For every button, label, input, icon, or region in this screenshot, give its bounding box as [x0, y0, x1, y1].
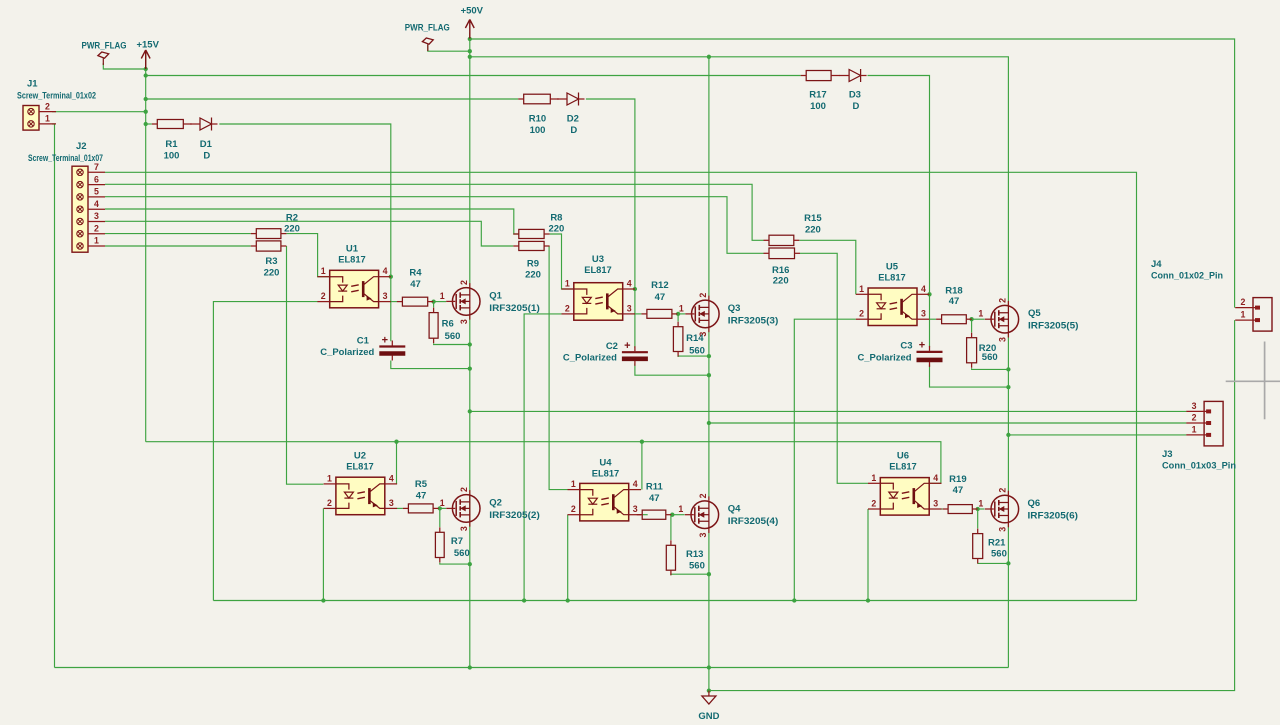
svg-text:2: 2 [698, 293, 708, 298]
wire R7 bottom to source [440, 563, 470, 564]
wire U5 pin3 to R18 [930, 318, 937, 320]
wire R20 bottom to source [972, 368, 1009, 369]
junction U2 pin2 rail [321, 598, 325, 602]
wire R21 top [977, 509, 979, 528]
transistor Q5 IRF3205(5) [978, 298, 1078, 342]
diode D1 [190, 118, 218, 162]
svg-text:2: 2 [321, 291, 326, 301]
svg-text:100: 100 [530, 125, 546, 136]
cursor crosshair [1226, 342, 1280, 420]
svg-text:Q4: Q4 [728, 504, 741, 515]
svg-text:2: 2 [565, 303, 570, 313]
svg-text:3: 3 [627, 303, 632, 313]
svg-text:J3: J3 [1162, 449, 1173, 460]
wire J2 pin2 to R2 [105, 233, 251, 235]
svg-text:IRF3205(5): IRF3205(5) [1028, 321, 1079, 332]
junction R19 R21 [976, 507, 980, 511]
svg-text:47: 47 [949, 296, 960, 307]
wire +15V to R1 [146, 123, 152, 125]
svg-text:+: + [624, 340, 630, 352]
resistor R4 [397, 267, 433, 306]
resistor R11 [637, 481, 672, 519]
wire R19 to Q6 gate [978, 508, 985, 510]
wire Q6 source to bottom rail [1007, 523, 1009, 667]
power flag PWR_FLAG 1 [98, 52, 109, 65]
wire R11 to Q4 gate [671, 514, 684, 516]
svg-text:4: 4 [627, 279, 632, 289]
svg-text:R5: R5 [415, 479, 428, 490]
svg-text:3: 3 [633, 504, 638, 514]
wire emitter rail [213, 600, 1136, 602]
svg-text:1: 1 [978, 309, 983, 319]
wire Q3 drain feed [708, 57, 710, 300]
svg-text:3: 3 [389, 498, 394, 508]
wire +15V distribution rail to U6 pin4 [146, 442, 941, 484]
svg-text:47: 47 [416, 491, 427, 502]
svg-text:+: + [919, 340, 925, 352]
svg-text:+: + [382, 334, 388, 346]
junction C2 source [707, 373, 711, 377]
svg-text:4: 4 [383, 266, 388, 276]
svg-text:U2: U2 [354, 451, 366, 462]
power +15V [136, 39, 159, 69]
wire C2 bottom to source [635, 364, 709, 376]
svg-text:EL817: EL817 [338, 254, 366, 265]
svg-text:6: 6 [94, 174, 99, 184]
svg-text:R15: R15 [804, 213, 822, 224]
junction +15V R1 [144, 122, 148, 126]
svg-text:R2: R2 [286, 213, 298, 224]
wire R14 bottom to source [678, 355, 709, 358]
wire R6 top [433, 302, 435, 308]
svg-text:EL817: EL817 [592, 468, 620, 479]
junction R14 source [707, 354, 711, 358]
junction +15V R10 line [144, 97, 148, 101]
wire GND line to J4 pin1 [709, 320, 1235, 690]
junction U3 pin4 [633, 287, 637, 291]
wire U4 pin4 to +15V rail [641, 442, 643, 490]
wire +50V stem [469, 33, 471, 288]
svg-text:U4: U4 [599, 458, 612, 469]
svg-text:220: 220 [264, 268, 280, 279]
optocoupler U5 EL817 [856, 262, 930, 326]
junction U1 pin4 [389, 275, 393, 279]
svg-text:3: 3 [459, 319, 469, 324]
svg-text:560: 560 [689, 345, 705, 356]
svg-text:D1: D1 [200, 139, 213, 150]
wire bottom rail [55, 667, 1009, 669]
optocoupler U1 EL817 [317, 244, 391, 308]
junction Q3 drain feed [707, 55, 711, 59]
svg-text:220: 220 [805, 224, 821, 235]
wire J3 pin3 line [470, 410, 1187, 412]
resistor R8 [513, 213, 564, 239]
junction R13 source [707, 572, 711, 576]
transistor Q3 IRF3205(3) [679, 293, 778, 337]
resistor R5 [403, 479, 439, 513]
wire R2 to U1 pin1 [286, 234, 329, 277]
svg-text:1: 1 [571, 479, 576, 489]
wire J2 pin5 to R16 [105, 197, 764, 254]
ground GND [698, 691, 719, 722]
svg-text:3: 3 [698, 532, 708, 537]
wire U4 pin3 to R11 [642, 514, 648, 516]
resistor R19 [943, 474, 978, 514]
svg-text:2: 2 [94, 223, 99, 233]
resistor R21 [973, 529, 1007, 564]
svg-text:2: 2 [459, 487, 469, 492]
svg-text:1: 1 [94, 236, 99, 246]
wire U4 pin2 down [567, 515, 569, 601]
wire R16 to U6 pin1 [800, 253, 868, 483]
junction U2 pin4 rail [394, 440, 398, 444]
svg-text:560: 560 [689, 561, 705, 572]
svg-text:2: 2 [871, 499, 876, 509]
svg-text:3: 3 [933, 499, 938, 509]
capacitor C3 [858, 340, 943, 367]
svg-text:2: 2 [698, 493, 708, 498]
wire Q4 source chain [708, 528, 710, 691]
svg-text:3: 3 [997, 337, 1007, 342]
junction U5 pin2 rail [792, 598, 796, 602]
svg-text:1: 1 [679, 303, 684, 313]
svg-text:220: 220 [773, 275, 789, 286]
svg-text:47: 47 [953, 485, 964, 496]
svg-text:C_Polarized: C_Polarized [320, 347, 374, 358]
junction U5 pin4 [927, 292, 931, 296]
resistor R1 [152, 120, 192, 162]
svg-text:IRF3205(2): IRF3205(2) [489, 510, 540, 521]
junction R7 source [468, 562, 472, 566]
wire U5 pin2 to rail [794, 319, 856, 600]
wire U6 pin3 to R19 [941, 508, 943, 510]
wire Q3 source chain [708, 328, 710, 500]
junction U4 pin4 rail [640, 440, 644, 444]
svg-text:R1: R1 [165, 139, 178, 150]
svg-text:R17: R17 [809, 90, 826, 101]
svg-text:EL817: EL817 [889, 461, 917, 472]
svg-text:2: 2 [997, 298, 1007, 303]
svg-text:Q3: Q3 [728, 303, 741, 314]
wire R15 to U5 pin1 [799, 240, 856, 294]
svg-text:220: 220 [548, 224, 564, 235]
junction GND tap [707, 688, 711, 692]
svg-text:220: 220 [525, 269, 541, 280]
junction U4 pin2 rail [566, 598, 570, 602]
svg-text:R4: R4 [409, 267, 422, 278]
wire J3 pin1 line [1008, 434, 1186, 436]
wire U2 pin4 to +15V rail [396, 442, 398, 484]
svg-text:2: 2 [1192, 413, 1197, 423]
junction +50V branch [468, 55, 472, 59]
wire R3 to U2 pin1 [287, 246, 324, 484]
svg-text:560: 560 [454, 548, 470, 559]
connector J4 Conn_01x02_Pin [1235, 297, 1272, 331]
resistor R14 [673, 322, 705, 357]
svg-text:U5: U5 [886, 262, 899, 273]
wire R21 bottom to source [978, 562, 1009, 564]
svg-text:IRF3205(3): IRF3205(3) [728, 315, 779, 326]
svg-text:IRF3205(6): IRF3205(6) [1028, 511, 1079, 522]
resistor R2 [251, 213, 300, 239]
svg-text:2: 2 [997, 488, 1007, 493]
svg-text:EL817: EL817 [878, 272, 906, 283]
optocoupler U6 EL817 [868, 451, 942, 516]
svg-text:R12: R12 [651, 280, 668, 291]
wire U3 pin3 to R12 [635, 313, 642, 315]
svg-text:GND: GND [698, 711, 719, 722]
wire R20 top [971, 319, 973, 332]
power flag PWR_FLAG 2 [422, 38, 433, 51]
resistor R17 [801, 71, 840, 113]
svg-text:560: 560 [982, 352, 998, 363]
junction U6 pin2 rail [866, 598, 870, 602]
svg-text:560: 560 [991, 549, 1007, 560]
junction C1 source [468, 366, 472, 370]
svg-text:2: 2 [859, 309, 864, 319]
resistor R9 [513, 241, 549, 280]
svg-text:C2: C2 [606, 341, 618, 352]
wire R7 top [439, 508, 441, 527]
svg-text:R6: R6 [442, 319, 454, 330]
svg-text:3: 3 [459, 526, 469, 531]
junction +50V flag [468, 49, 472, 53]
junction +50V top line [468, 37, 472, 41]
svg-text:3: 3 [698, 332, 708, 337]
connector J1 Screw_Terminal_01x02 [23, 101, 56, 130]
svg-text:Q1: Q1 [489, 290, 502, 301]
junction +15V J1 pin2 [144, 110, 148, 114]
svg-text:PWR_FLAG: PWR_FLAG [82, 41, 127, 52]
wire PWR_FLAG2 to +50V [428, 45, 470, 51]
svg-text:1: 1 [978, 499, 983, 509]
svg-text:EL817: EL817 [346, 461, 374, 472]
svg-text:4: 4 [633, 479, 638, 489]
power +50V [461, 6, 484, 39]
junction J3 pin3 tap [468, 409, 472, 413]
resistor R20 [967, 333, 998, 368]
wire U3 pin2 to rail [524, 314, 561, 601]
svg-text:C3: C3 [900, 341, 912, 352]
transistor Q1 IRF3205(1) [440, 280, 540, 324]
resistor R3 [251, 241, 287, 279]
wire J2 pin7 to emitter rail [105, 172, 1137, 600]
capacitor C2 [563, 340, 648, 366]
wire R9 to U4 pin1 [549, 246, 567, 490]
wire J2 pin3 to R9 [105, 221, 513, 246]
wire R18 to Q5 gate [972, 318, 985, 320]
svg-text:3: 3 [383, 291, 388, 301]
svg-text:3: 3 [1192, 401, 1197, 411]
wire R13 top [670, 515, 672, 540]
svg-text:1: 1 [565, 279, 570, 289]
wire D3 to U5 pin4 column [868, 76, 930, 348]
wire Q1 source chain [469, 315, 471, 667]
optocoupler U4 EL817 [568, 458, 642, 521]
svg-text:2: 2 [1241, 297, 1246, 307]
connector J2 Screw_Terminal_01x07 [72, 162, 105, 252]
svg-text:220: 220 [284, 223, 300, 234]
wire R5 to Q2 gate [439, 507, 446, 509]
svg-text:560: 560 [445, 331, 461, 342]
wire R14 top [677, 314, 679, 322]
diode D2 [557, 93, 585, 137]
svg-text:R3: R3 [265, 256, 277, 267]
optocoupler U2 EL817 [324, 451, 398, 515]
wire D2 to U3 pin4 column [586, 99, 635, 348]
svg-text:1: 1 [871, 473, 876, 483]
wire +15V to R10 line [146, 98, 519, 100]
svg-text:Q2: Q2 [489, 497, 502, 508]
svg-text:4: 4 [94, 199, 99, 209]
svg-text:1: 1 [440, 291, 445, 301]
svg-text:47: 47 [410, 279, 421, 290]
svg-text:47: 47 [649, 493, 660, 504]
svg-text:J4: J4 [1151, 259, 1162, 270]
svg-text:R11: R11 [646, 481, 664, 492]
svg-text:7: 7 [94, 162, 99, 172]
svg-text:3: 3 [997, 527, 1007, 532]
resistor R16 [764, 248, 801, 286]
svg-text:D2: D2 [567, 114, 579, 125]
resistor R10 [518, 94, 559, 136]
junction R4 R6 [431, 299, 435, 303]
wire J2 pin4 to R8 [105, 209, 519, 234]
resistor R15 [764, 213, 823, 246]
junction R12 R14 [676, 312, 680, 316]
junction Q4 bottom rail [707, 665, 711, 669]
svg-text:1: 1 [1192, 424, 1197, 434]
wire +15V to R17 line [146, 75, 801, 77]
svg-text:R21: R21 [988, 538, 1006, 549]
wire U1 pin2 to emitter rail [213, 302, 317, 601]
wire R8 to U3 pin1 [550, 234, 574, 289]
svg-text:1: 1 [859, 284, 864, 294]
wire J2 pin6 to R15 [105, 184, 764, 240]
svg-text:R18: R18 [945, 285, 962, 296]
svg-text:R19: R19 [949, 474, 966, 485]
junction R18 R20 [969, 317, 973, 321]
svg-text:R7: R7 [451, 536, 463, 547]
junction R21 source [1006, 561, 1010, 565]
svg-text:U6: U6 [897, 451, 909, 462]
svg-text:Screw_Terminal_01x02: Screw_Terminal_01x02 [17, 91, 96, 101]
junction R6 source [468, 342, 472, 346]
junction Q2 bottom rail [468, 665, 472, 669]
svg-text:J1: J1 [27, 79, 38, 90]
transistor Q2 IRF3205(2) [440, 487, 540, 531]
wire J2 pin1 to R3 [105, 245, 251, 247]
svg-text:2: 2 [45, 101, 50, 111]
wire R6 bottom to source [434, 344, 470, 345]
junction R20 source [1006, 367, 1010, 371]
resistor R6 [429, 308, 460, 344]
resistor R18 [936, 285, 972, 323]
wire +15V rail vertical [145, 52, 147, 442]
svg-text:U3: U3 [592, 254, 604, 265]
svg-text:4: 4 [921, 284, 926, 294]
junction J3 pin1 tap [1006, 433, 1010, 437]
svg-text:5: 5 [94, 187, 99, 197]
connector J3 Conn_01x03_Pin [1186, 401, 1223, 446]
svg-text:C1: C1 [357, 335, 370, 346]
wire J1 pin2 to +15V [52, 111, 146, 113]
wire R12 to Q3 gate [677, 313, 685, 315]
wire D1 to U1 pin4 column [219, 124, 390, 341]
svg-text:R16: R16 [772, 265, 789, 276]
svg-text:R10: R10 [529, 114, 546, 125]
svg-text:1: 1 [440, 498, 445, 508]
svg-text:D: D [570, 125, 577, 136]
svg-text:+50V: +50V [461, 6, 484, 17]
svg-text:C_Polarized: C_Polarized [563, 353, 617, 364]
wire U6 pin2 down [867, 509, 869, 601]
resistor R12 [641, 280, 677, 318]
svg-text:100: 100 [810, 101, 826, 112]
junction R11 R13 [670, 513, 674, 517]
svg-text:1: 1 [678, 504, 683, 514]
svg-text:3: 3 [94, 211, 99, 221]
svg-text:Q5: Q5 [1028, 308, 1041, 319]
svg-text:Q6: Q6 [1028, 498, 1041, 509]
svg-text:1: 1 [1241, 310, 1246, 320]
wire +50V second branch [470, 57, 1009, 306]
svg-text:4: 4 [933, 473, 938, 483]
wire J3 pin2 line [709, 422, 1187, 424]
transistor Q4 IRF3205(4) [678, 493, 778, 537]
wire C3 bottom to source [930, 365, 1009, 388]
svg-text:D: D [203, 151, 210, 162]
svg-text:1: 1 [327, 473, 332, 483]
svg-text:IRF3205(1): IRF3205(1) [489, 303, 540, 314]
svg-text:R13: R13 [686, 549, 703, 560]
svg-text:2: 2 [459, 280, 469, 285]
wire PWR_FLAG1 to +15V [103, 63, 145, 69]
wire Q5 source chain [1007, 333, 1009, 495]
junction +15V flag [144, 67, 148, 71]
wire U2 pin3 to R5 [397, 507, 403, 509]
capacitor C1 [320, 334, 405, 360]
svg-text:R8: R8 [550, 213, 562, 224]
svg-text:Conn_01x03_Pin: Conn_01x03_Pin [1162, 461, 1236, 471]
svg-text:100: 100 [164, 151, 180, 162]
svg-text:EL817: EL817 [584, 265, 612, 276]
svg-text:47: 47 [655, 292, 666, 303]
wire U2 pin2 down [322, 508, 324, 600]
svg-text:2: 2 [571, 504, 576, 514]
resistor R13 [666, 540, 705, 575]
svg-text:J2: J2 [76, 141, 87, 152]
junction R5 R7 [438, 506, 442, 510]
svg-text:D3: D3 [849, 90, 861, 101]
transistor Q6 IRF3205(6) [978, 488, 1078, 532]
junction J3 pin2 tap [707, 421, 711, 425]
svg-text:Conn_01x02_Pin: Conn_01x02_Pin [1151, 271, 1223, 281]
svg-text:R9: R9 [527, 259, 539, 270]
diode D3 [839, 69, 867, 112]
svg-text:3: 3 [921, 309, 926, 319]
svg-text:U1: U1 [346, 244, 359, 255]
wire C1 bottom to source [391, 361, 470, 369]
svg-text:1: 1 [321, 266, 326, 276]
resistor R7 [435, 527, 469, 562]
svg-text:IRF3205(4): IRF3205(4) [728, 516, 779, 527]
wire +50V top line to J4 pin2 [470, 39, 1235, 308]
svg-text:4: 4 [389, 473, 394, 483]
svg-text:D: D [852, 101, 859, 112]
svg-text:C_Polarized: C_Polarized [858, 352, 912, 363]
wire R13 bottom to source [671, 574, 709, 575]
